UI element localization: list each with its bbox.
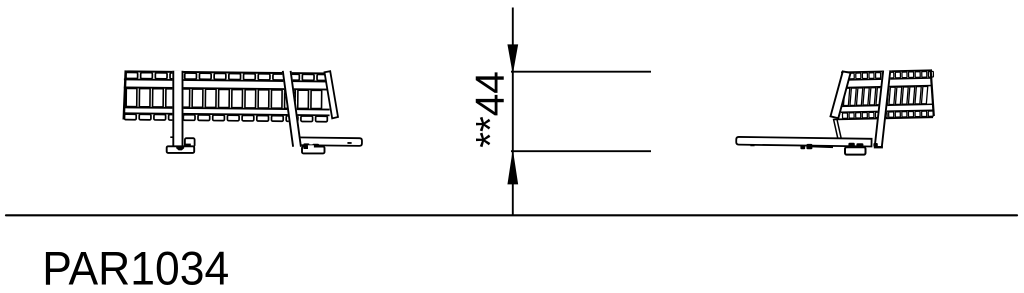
bar notch — [750, 144, 754, 146]
near leg — [874, 71, 891, 148]
top slat row — [126, 72, 329, 80]
bench end view: slatted seat band — [836, 70, 934, 119]
dimension line upper — [511, 71, 651, 73]
dimension line lower — [511, 150, 651, 152]
left leg clamp tick — [170, 136, 173, 138]
lower rail — [841, 104, 933, 106]
middle slat row — [126, 88, 322, 108]
band top edge — [124, 71, 329, 73]
middle slat row — [843, 86, 928, 105]
left leg side block — [185, 138, 195, 146]
band left end cap — [831, 71, 851, 118]
bar bolt tick — [347, 142, 351, 144]
right leg — [282, 71, 302, 147]
lower rail — [124, 107, 330, 109]
top slat row — [843, 71, 934, 79]
svg-text:PAR1034: PAR1034 — [42, 241, 229, 293]
bottom slat row — [124, 114, 327, 122]
right leg foot plate — [302, 147, 325, 154]
upper rail — [124, 79, 330, 81]
band top edge — [841, 70, 932, 72]
bottom slat row — [842, 111, 933, 118]
dimension extension line vertical — [512, 8, 514, 216]
band right end cap — [325, 71, 339, 118]
band right edge — [931, 70, 934, 117]
band left edge — [124, 71, 126, 120]
ground bar front — [736, 137, 871, 148]
bracket bolts — [800, 145, 805, 149]
left leg foot plate — [167, 146, 195, 153]
far leg strut — [834, 120, 843, 145]
front foot clamp — [848, 143, 854, 148]
dimension arrow up — [508, 152, 518, 184]
upper rail — [840, 78, 932, 80]
ground bar (seat front frame) — [296, 137, 362, 145]
bench rear view: slatted seat band — [123, 71, 329, 121]
right leg clamp — [303, 143, 309, 147]
front foot plate — [845, 147, 866, 154]
left leg — [172, 71, 183, 147]
ground line — [6, 214, 1017, 216]
left leg anchor mark — [176, 146, 184, 150]
svg-text:**44: **44 — [467, 71, 513, 148]
dimension arrow down — [508, 45, 518, 72]
band bottom edge — [837, 117, 933, 119]
